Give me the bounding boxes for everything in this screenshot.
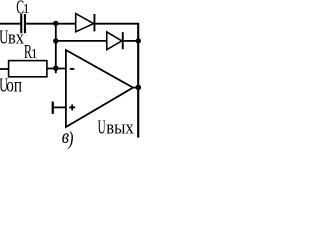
capacitor C1	[20, 14, 26, 33]
svg-text:оп: оп	[6, 74, 22, 96]
wire: Uvx input to capacitor C1	[0, 23, 21, 25]
plus sign (non-inverting input)	[69, 104, 75, 110]
op-amp U1 triangle	[66, 50, 133, 127]
wire: R1 to inverting input	[47, 68, 66, 70]
label v) figure caption	[62, 125, 74, 149]
wire: VD2 cathode to node D	[124, 40, 139, 42]
node C junction dot	[53, 66, 58, 71]
svg-text:1: 1	[31, 46, 38, 61]
wire: VD1 cathode to right rail corner	[95, 23, 138, 25]
node A junction dot	[53, 21, 58, 26]
node E junction dot	[136, 85, 142, 91]
resistor R1	[9, 61, 47, 77]
node B junction dot	[53, 38, 58, 43]
diode VD1	[76, 14, 96, 32]
svg-text:вых: вых	[106, 117, 134, 138]
minus sign (inverting input)	[70, 68, 75, 70]
wire: node B to diode VD2 anode	[56, 40, 107, 42]
svg-text:1: 1	[23, 1, 30, 16]
label R1	[24, 40, 38, 63]
svg-text:): )	[67, 128, 73, 150]
wire: C1 to diode VD1 anode	[26, 23, 76, 25]
wire: op-amp output to node E	[132, 87, 139, 89]
wire: Uop input to resistor R1	[0, 68, 9, 70]
label C1	[16, 0, 29, 18]
svg-text:U: U	[98, 118, 106, 139]
diode VD2	[107, 32, 124, 50]
svg-text:вх: вх	[8, 26, 24, 47]
node D junction dot	[136, 38, 141, 43]
wire: vertical link node A to node C	[55, 23, 57, 73]
wire: terminal to non-inverting input	[54, 106, 66, 108]
label Uvyx	[98, 117, 134, 139]
label Uop	[0, 73, 22, 96]
label Uvx	[0, 26, 24, 48]
right rail wire	[137, 23, 139, 138]
terminal bar (common terminal)	[52, 102, 54, 114]
